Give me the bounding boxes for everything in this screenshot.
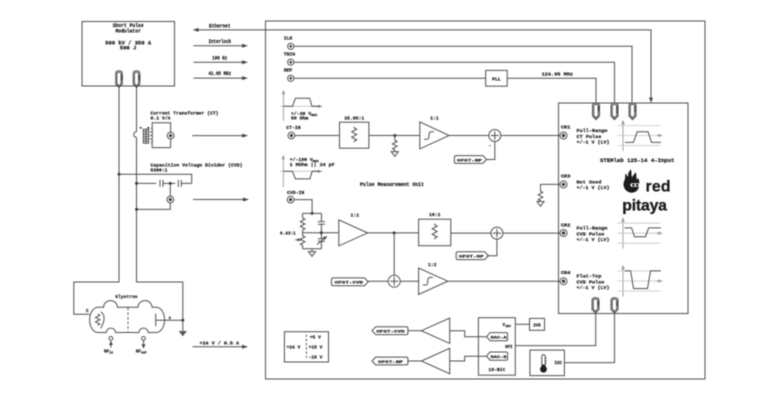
svg-text:+/-1 V (LV): +/-1 V (LV) bbox=[577, 185, 610, 191]
svg-text:-: - bbox=[489, 144, 492, 149]
svg-text:+24 V / 0.5 A: +24 V / 0.5 A bbox=[199, 340, 239, 346]
svg-text:SPI: SPI bbox=[596, 301, 600, 307]
svg-text:OFST-CVD: OFST-CVD bbox=[335, 282, 365, 286]
svg-text:CT Pulse: CT Pulse bbox=[577, 134, 602, 140]
svg-text:50 Ohm: 50 Ohm bbox=[291, 116, 308, 122]
svg-text:in: in bbox=[109, 351, 113, 355]
svg-text:1 MOhm || 24 pF: 1 MOhm || 24 pF bbox=[290, 162, 335, 168]
svg-text:100 Hz: 100 Hz bbox=[212, 55, 227, 61]
svg-text:1:1: 1:1 bbox=[350, 212, 359, 218]
svg-text:red: red bbox=[646, 179, 671, 196]
svg-text:41.65 MHz: 41.65 MHz bbox=[209, 71, 232, 77]
svg-text:350: 350 bbox=[120, 75, 124, 81]
svg-text:5300:1: 5300:1 bbox=[151, 167, 168, 173]
svg-text:1:2: 1:2 bbox=[428, 262, 437, 268]
svg-text:OFST-RP: OFST-RP bbox=[457, 159, 483, 163]
svg-text:Full-Range: Full-Range bbox=[577, 226, 608, 232]
svg-text:Modulator: Modulator bbox=[115, 29, 141, 35]
svg-text:Klystron: Klystron bbox=[115, 294, 137, 300]
svg-text:DAC-B: DAC-B bbox=[491, 356, 508, 360]
svg-text:+15 V: +15 V bbox=[309, 345, 323, 351]
svg-text:Not Used: Not Used bbox=[577, 180, 602, 186]
svg-text:500 J: 500 J bbox=[120, 46, 137, 52]
svg-text:OFST-CVD: OFST-CVD bbox=[376, 331, 406, 335]
svg-text:pitaya: pitaya bbox=[622, 197, 667, 214]
svg-text:Interlock: Interlock bbox=[209, 39, 232, 45]
svg-text:16-Bit: 16-Bit bbox=[489, 368, 507, 373]
svg-text:350: 350 bbox=[137, 75, 141, 81]
svg-text:Ethernet: Ethernet bbox=[209, 23, 231, 29]
svg-text:REF: REF bbox=[596, 106, 600, 112]
svg-text:-15 V: -15 V bbox=[309, 355, 323, 361]
svg-text:PLL: PLL bbox=[492, 76, 501, 82]
svg-text:REF: REF bbox=[284, 68, 293, 74]
svg-text:OFST-RP: OFST-RP bbox=[459, 256, 485, 260]
svg-text:+/-1 V (LV): +/-1 V (LV) bbox=[577, 237, 610, 243]
svg-text:9.43:1: 9.43:1 bbox=[280, 231, 296, 237]
svg-text:15.85:1: 15.85:1 bbox=[344, 115, 364, 121]
svg-text:TRIG: TRIG bbox=[284, 52, 296, 58]
svg-text:OFST-RP: OFST-RP bbox=[378, 361, 404, 365]
svg-text:C: C bbox=[86, 309, 89, 314]
svg-text:+5 V: +5 V bbox=[310, 335, 321, 341]
svg-text:CVD Pulse: CVD Pulse bbox=[577, 279, 605, 285]
svg-text:CH3: CH3 bbox=[561, 175, 571, 180]
svg-text:+/-1 V (LV): +/-1 V (LV) bbox=[577, 285, 610, 291]
svg-text:CH1: CH1 bbox=[561, 126, 571, 131]
svg-text:out: out bbox=[141, 351, 147, 355]
svg-text:0.1 V/A: 0.1 V/A bbox=[151, 115, 171, 121]
svg-text:max: max bbox=[311, 114, 317, 118]
svg-text:ILK: ILK bbox=[633, 106, 637, 112]
svg-text:I2C: I2C bbox=[615, 301, 619, 307]
svg-text:10:1: 10:1 bbox=[429, 212, 441, 218]
svg-text:Full-Range: Full-Range bbox=[577, 128, 608, 134]
svg-text:CH4: CH4 bbox=[561, 271, 571, 276]
svg-text:REF: REF bbox=[506, 324, 512, 328]
svg-text:+/-1 V (LV): +/-1 V (LV) bbox=[577, 139, 610, 145]
svg-text:CH2: CH2 bbox=[561, 223, 571, 228]
svg-text:CVD-IN: CVD-IN bbox=[287, 190, 304, 196]
svg-text:Flat-Top: Flat-Top bbox=[577, 274, 602, 280]
svg-text:STEMlab 125-14 4-Input: STEMlab 125-14 4-Input bbox=[600, 158, 675, 164]
svg-text:CVD Pulse: CVD Pulse bbox=[577, 232, 605, 238]
svg-text:124.95 MHz: 124.95 MHz bbox=[542, 71, 574, 77]
svg-text:TRIG: TRIG bbox=[615, 105, 619, 113]
svg-text:ILK: ILK bbox=[284, 36, 293, 42]
svg-text:DAC-A: DAC-A bbox=[491, 337, 508, 341]
svg-text:CT-IN: CT-IN bbox=[286, 125, 301, 131]
svg-text:Pulse Measurement Unit: Pulse Measurement Unit bbox=[360, 182, 424, 188]
svg-text:+24 V: +24 V bbox=[287, 345, 301, 351]
svg-text:2V5: 2V5 bbox=[533, 325, 541, 329]
svg-text:SPI: SPI bbox=[505, 346, 513, 350]
svg-text:I2C: I2C bbox=[555, 362, 563, 366]
svg-text:1:1: 1:1 bbox=[430, 116, 439, 122]
